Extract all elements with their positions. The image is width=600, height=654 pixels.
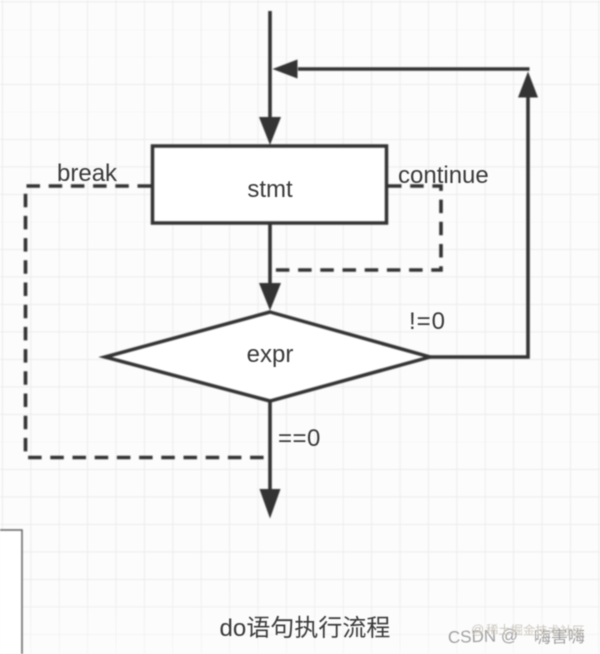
svg-text:break: break	[57, 160, 118, 187]
svg-text:!=0: !=0	[409, 308, 446, 335]
svg-text:@: @	[471, 622, 484, 637]
svg-text:stmt: stmt	[247, 176, 293, 203]
svg-text:do: do	[220, 615, 247, 642]
svg-text:continue: continue	[398, 162, 489, 189]
svg-text:==0: ==0	[278, 425, 321, 452]
svg-text:expr: expr	[247, 341, 294, 368]
